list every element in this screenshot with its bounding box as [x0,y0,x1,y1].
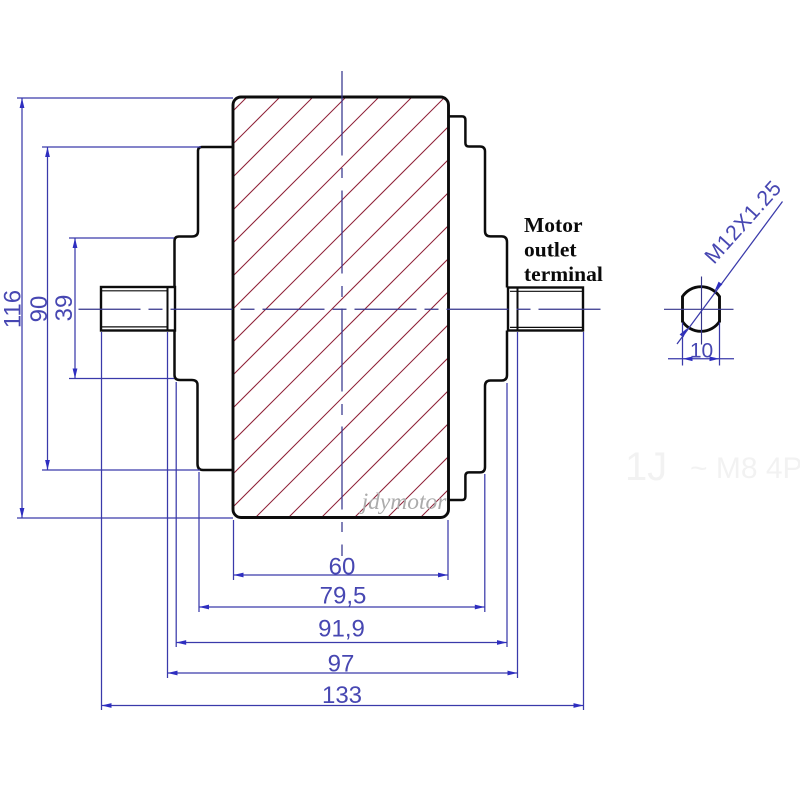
svg-text:10: 10 [690,340,713,363]
svg-text:91,9: 91,9 [318,616,365,643]
dimension 91,9 [176,382,507,647]
dimension 116 [17,98,233,518]
circle crosshair centerlines [664,277,734,345]
svg-text:97: 97 [328,651,355,678]
svg-text:133: 133 [322,682,362,709]
motor body (lamination stack) [233,97,449,518]
svg-text:jdymotor: jdymotor [359,489,448,515]
svg-text:outlet: outlet [524,238,577,262]
thread callout leader M12X1.25 [677,176,787,344]
right shaft (threaded) [508,288,583,331]
section hatching [0,90,800,525]
right end bell profile [449,116,508,500]
svg-text:terminal: terminal [524,262,603,286]
faint background watermark [625,445,800,489]
dimension 39 [69,238,174,379]
label Motor outlet terminal [524,213,603,286]
svg-text:~ M8 4P: ~ M8 4P [690,452,800,485]
svg-text:Motor: Motor [524,213,583,237]
dimension 133 [102,332,584,710]
dimension 10 [668,323,734,366]
svg-text:90: 90 [26,296,53,323]
dimension 90 [42,147,201,470]
shaft end view (circle with flats) [683,287,720,332]
svg-text:79,5: 79,5 [320,583,367,610]
svg-text:1J: 1J [625,445,667,489]
vertical centerline [341,71,343,556]
svg-text:39: 39 [51,295,78,322]
svg-text:116: 116 [0,290,27,328]
watermark jdymotor [359,489,448,515]
dimension 60 [234,520,449,580]
left end bell profile [175,147,234,470]
horizontal centerline [79,308,604,310]
dimension 79,5 [199,472,485,612]
svg-text:60: 60 [329,554,356,581]
left shaft (threaded) [101,287,175,331]
dimension 97 [168,332,518,678]
